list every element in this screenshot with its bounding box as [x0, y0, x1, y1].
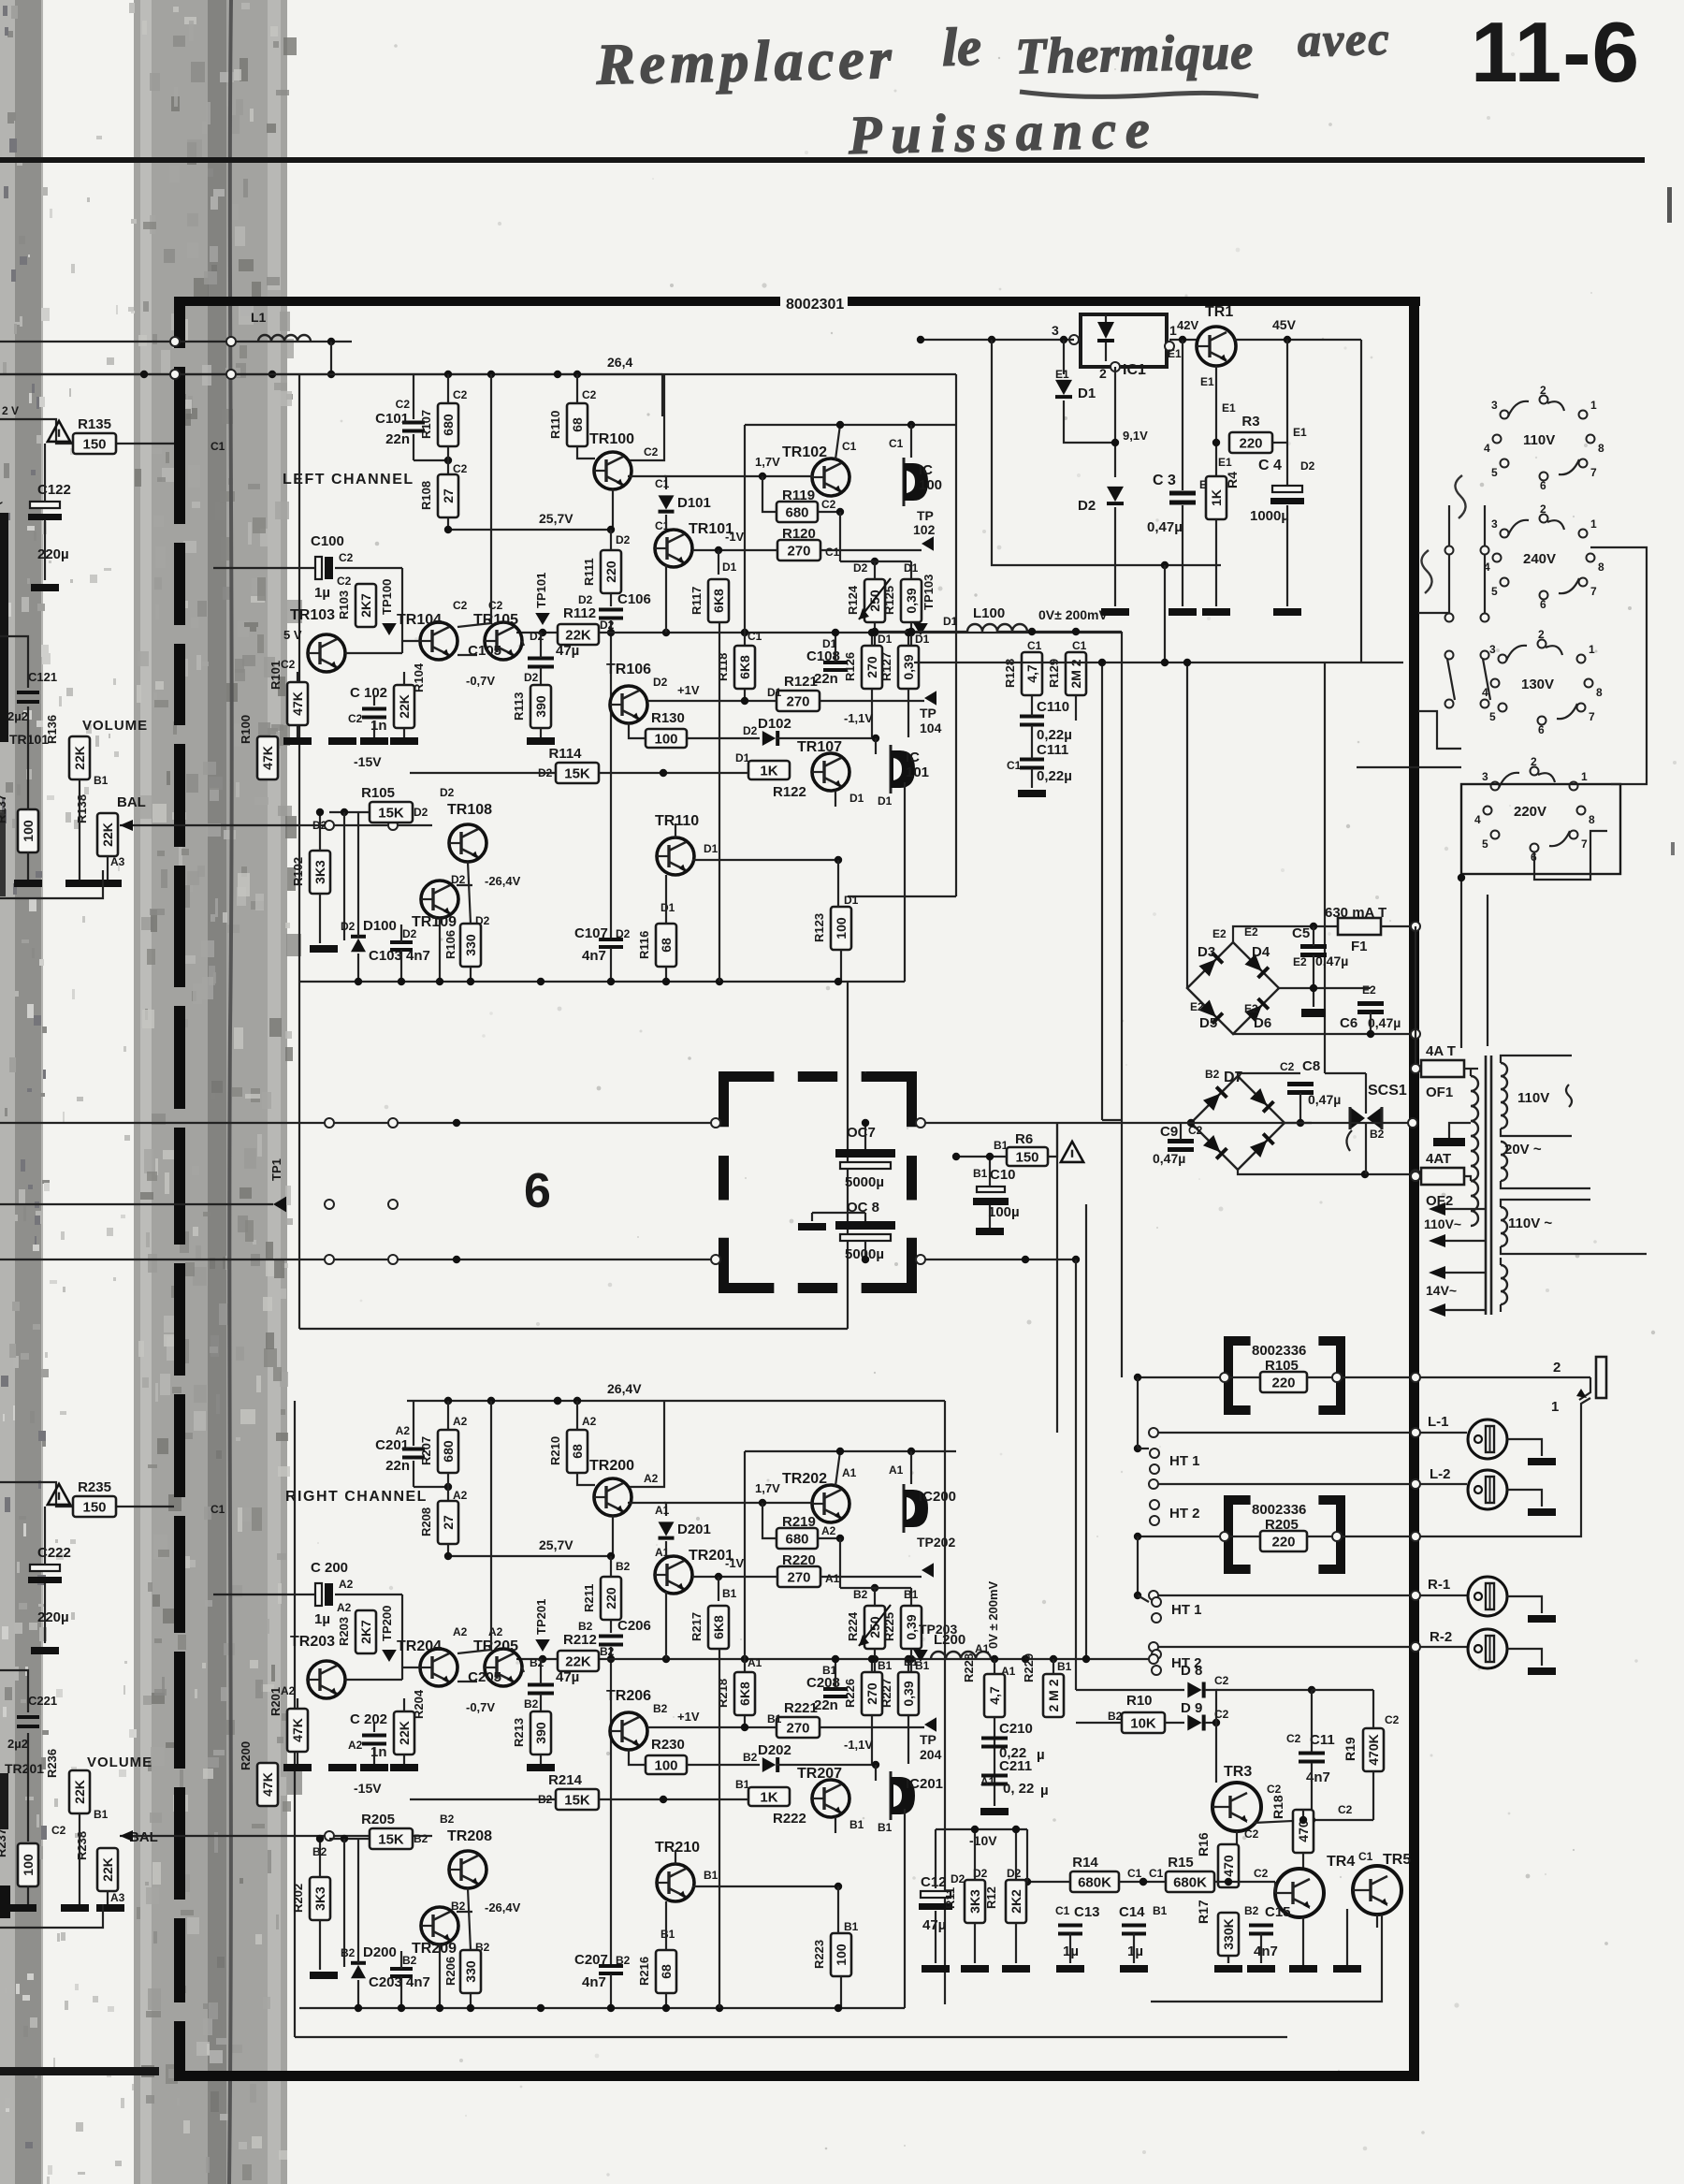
svg-text:4n7: 4n7: [406, 1974, 430, 1990]
svg-text:220: 220: [1271, 1376, 1295, 1391]
svg-text:TR5: TR5: [1383, 1852, 1411, 1868]
svg-text:5: 5: [1482, 837, 1488, 851]
svg-text:B2: B2: [616, 1560, 631, 1573]
svg-text:100: 100: [21, 1854, 36, 1876]
svg-text:C14: C14: [1119, 1904, 1145, 1920]
svg-text:27: 27: [441, 1515, 456, 1530]
svg-text:R205: R205: [361, 1812, 395, 1827]
svg-text:C8: C8: [1302, 1058, 1320, 1074]
svg-text:26,4: 26,4: [607, 355, 632, 370]
svg-text:R127: R127: [879, 652, 893, 681]
svg-text:C1: C1: [748, 630, 762, 643]
svg-text:TR204: TR204: [397, 1638, 442, 1654]
svg-text:D2: D2: [853, 561, 868, 575]
svg-text:C5: C5: [1292, 925, 1310, 941]
svg-text:R3: R3: [1241, 414, 1259, 430]
svg-text:0,39: 0,39: [904, 588, 919, 613]
svg-text:C2: C2: [1286, 1732, 1301, 1745]
svg-text:A1: A1: [889, 1463, 904, 1477]
svg-text:TR110: TR110: [655, 813, 699, 829]
svg-text:C 102: C 102: [350, 685, 387, 701]
svg-text:D1: D1: [878, 633, 893, 646]
svg-text:330: 330: [463, 1960, 478, 1983]
svg-text:TR209: TR209: [412, 1941, 457, 1957]
svg-text:5: 5: [1489, 710, 1496, 723]
svg-text:TR104: TR104: [397, 612, 442, 628]
svg-text:R111: R111: [582, 558, 596, 586]
svg-text:A2: A2: [821, 1524, 836, 1537]
svg-text:101: 101: [906, 764, 929, 780]
svg-text:150: 150: [1015, 1150, 1038, 1166]
svg-text:4n7: 4n7: [1306, 1769, 1330, 1785]
svg-text:C2: C2: [339, 551, 354, 564]
svg-text:2µ2: 2µ2: [7, 1737, 28, 1751]
svg-text:8: 8: [1596, 686, 1603, 699]
svg-text:R16: R16: [1196, 1832, 1211, 1856]
svg-text:R-2: R-2: [1430, 1629, 1452, 1645]
svg-text:C 200: C 200: [311, 1560, 348, 1576]
svg-text:22K: 22K: [565, 1654, 591, 1670]
svg-text:C2: C2: [51, 1824, 66, 1837]
svg-text:7: 7: [1590, 585, 1597, 598]
svg-text:D2: D2: [440, 786, 455, 799]
svg-text:E1: E1: [1218, 456, 1232, 469]
svg-text:B2: B2: [1205, 1068, 1220, 1081]
svg-text:C1: C1: [1149, 1867, 1164, 1880]
svg-text:C2: C2: [1338, 1803, 1353, 1816]
svg-text:C1: C1: [1072, 639, 1087, 652]
svg-text:5000µ: 5000µ: [845, 1174, 884, 1190]
svg-text:L-2: L-2: [1430, 1466, 1451, 1482]
svg-text:0,47µ: 0,47µ: [1315, 954, 1348, 968]
svg-text:15K: 15K: [378, 1832, 404, 1848]
svg-text:C1: C1: [210, 440, 225, 453]
svg-text:3K3: 3K3: [312, 860, 327, 884]
svg-text:0, 22: 0, 22: [1003, 1781, 1034, 1797]
svg-text:204: 204: [920, 1747, 942, 1762]
svg-text:8: 8: [1598, 561, 1604, 574]
svg-text:100: 100: [919, 477, 942, 493]
svg-text:47µ: 47µ: [556, 643, 579, 659]
svg-text:B2: B2: [1244, 1904, 1259, 1917]
svg-text:C 3: C 3: [1153, 473, 1176, 488]
svg-text:R11: R11: [943, 1887, 957, 1909]
svg-text:R100: R100: [239, 715, 253, 744]
svg-text:L-1: L-1: [1428, 1414, 1449, 1430]
svg-text:R237: R237: [0, 1828, 8, 1857]
svg-text:R4: R4: [1225, 472, 1240, 488]
svg-text:IC200: IC200: [919, 1489, 956, 1505]
svg-text:-1,1V: -1,1V: [844, 711, 873, 725]
svg-text:4n7: 4n7: [1254, 1944, 1278, 1959]
svg-text:HT 1: HT 1: [1171, 1602, 1202, 1618]
svg-text:2µ2: 2µ2: [7, 709, 28, 723]
svg-text:TR100: TR100: [589, 431, 634, 447]
svg-text:8002301: 8002301: [786, 297, 844, 313]
svg-text:D1: D1: [844, 894, 859, 907]
svg-text:D2: D2: [616, 533, 631, 546]
svg-text:C106: C106: [617, 591, 651, 607]
svg-text:C2: C2: [1214, 1674, 1229, 1687]
svg-text:D101: D101: [677, 495, 711, 511]
svg-text:A1: A1: [1001, 1665, 1016, 1678]
svg-text:220: 220: [1271, 1535, 1295, 1551]
svg-text:HT 2: HT 2: [1169, 1506, 1200, 1522]
svg-text:R212: R212: [563, 1632, 597, 1648]
svg-text:D1: D1: [878, 794, 893, 808]
svg-text:D3: D3: [1198, 944, 1215, 960]
svg-text:BAL: BAL: [117, 794, 146, 810]
svg-text:8: 8: [1598, 442, 1604, 455]
svg-text:1: 1: [1581, 770, 1588, 783]
svg-text:TR3: TR3: [1224, 1764, 1252, 1780]
svg-text:R102: R102: [291, 857, 305, 886]
svg-text:R236: R236: [45, 1749, 59, 1778]
svg-text:0V± 200mV: 0V± 200mV: [1038, 607, 1109, 622]
svg-text:TP201: TP201: [534, 1599, 548, 1635]
svg-text:5: 5: [1491, 466, 1498, 479]
svg-text:220: 220: [603, 1587, 618, 1609]
svg-text:HT 1: HT 1: [1169, 1453, 1200, 1469]
svg-text:22n: 22n: [814, 1697, 838, 1713]
svg-text:47K: 47K: [290, 1718, 305, 1742]
svg-text:-0,7V: -0,7V: [466, 1700, 495, 1714]
svg-text:680K: 680K: [1078, 1875, 1111, 1891]
svg-text:0V ± 200mV: 0V ± 200mV: [986, 1580, 1000, 1649]
svg-text:R223: R223: [812, 1940, 826, 1969]
svg-text:22n: 22n: [385, 431, 410, 447]
svg-text:B1: B1: [1153, 1904, 1168, 1917]
svg-text:R106: R106: [443, 930, 457, 959]
svg-text:47K: 47K: [260, 1772, 275, 1797]
svg-text:110V ~: 110V ~: [1508, 1216, 1552, 1231]
svg-text:TR4: TR4: [1327, 1854, 1355, 1870]
svg-text:D4: D4: [1252, 944, 1270, 960]
svg-text:B1: B1: [1057, 1660, 1072, 1673]
svg-text:C 202: C 202: [350, 1711, 387, 1727]
svg-text:22n: 22n: [814, 671, 838, 687]
svg-text:Thermique: Thermique: [1015, 23, 1255, 84]
svg-text:D2: D2: [1078, 498, 1096, 514]
svg-text:R17: R17: [1196, 1900, 1211, 1924]
svg-text:68: 68: [659, 1964, 674, 1979]
svg-text:TR109: TR109: [412, 914, 457, 930]
svg-text:IC1: IC1: [1123, 362, 1146, 378]
svg-text:220: 220: [603, 561, 618, 583]
svg-text:D2: D2: [341, 920, 356, 933]
svg-text:A2: A2: [396, 1424, 411, 1437]
svg-text:100: 100: [654, 1758, 677, 1774]
svg-text:A1: A1: [842, 1466, 857, 1479]
svg-text:R217: R217: [690, 1612, 704, 1641]
svg-text:680: 680: [785, 505, 808, 521]
svg-text:1n: 1n: [370, 718, 387, 734]
svg-text:R206: R206: [443, 1957, 457, 1986]
svg-text:TP101: TP101: [534, 573, 548, 608]
svg-text:R130: R130: [651, 710, 685, 726]
svg-text:22K: 22K: [100, 1857, 115, 1882]
svg-text:C111: C111: [1037, 742, 1068, 758]
svg-text:D2: D2: [743, 724, 758, 737]
svg-text:B1: B1: [767, 1712, 782, 1725]
svg-text:4K7: 4K7: [0, 1509, 3, 1530]
svg-text:4,7: 4,7: [987, 1686, 1002, 1705]
svg-text:6: 6: [524, 1164, 551, 1218]
svg-text:C205: C205: [468, 1669, 501, 1685]
svg-text:SCS1: SCS1: [1368, 1083, 1407, 1099]
svg-text:D6: D6: [1254, 1015, 1271, 1031]
svg-text:220V: 220V: [1514, 804, 1546, 820]
svg-text:100: 100: [834, 917, 849, 939]
svg-text:C2: C2: [281, 658, 296, 671]
svg-text:110V~: 110V~: [1424, 1216, 1461, 1231]
svg-text:B1: B1: [94, 774, 109, 787]
svg-text:1µ: 1µ: [314, 1611, 330, 1627]
svg-text:150: 150: [82, 437, 106, 453]
svg-text:R125: R125: [882, 586, 896, 615]
svg-text:D1: D1: [767, 686, 782, 699]
svg-text:D2: D2: [402, 927, 417, 940]
svg-text:C2: C2: [1385, 1713, 1400, 1726]
svg-text:R110: R110: [548, 411, 562, 439]
svg-text:D2: D2: [414, 806, 428, 819]
svg-text:TR206: TR206: [606, 1688, 651, 1704]
svg-text:D200: D200: [363, 1944, 397, 1960]
svg-text:20V ~: 20V ~: [1504, 1142, 1542, 1158]
svg-text:TR107: TR107: [797, 739, 842, 755]
svg-text:TP: TP: [920, 706, 936, 721]
svg-text:R117: R117: [690, 587, 704, 615]
svg-text:22K: 22K: [100, 823, 115, 847]
svg-text:3K3: 3K3: [967, 1889, 982, 1914]
svg-text:D 8: D 8: [1181, 1663, 1202, 1679]
svg-text:68: 68: [570, 417, 585, 432]
svg-text:le: le: [941, 16, 981, 78]
svg-text:3: 3: [1491, 399, 1498, 412]
svg-text:R229: R229: [1022, 1653, 1036, 1682]
svg-text:E1: E1: [1293, 426, 1307, 439]
svg-text:TR208: TR208: [447, 1828, 492, 1844]
svg-text:220µ: 220µ: [37, 1609, 69, 1625]
svg-text:C2: C2: [1280, 1060, 1295, 1073]
svg-text:Remplacer: Remplacer: [595, 27, 897, 97]
svg-text:R19: R19: [1343, 1737, 1357, 1761]
svg-text:E1: E1: [1200, 375, 1214, 388]
svg-text:D2: D2: [653, 676, 668, 689]
svg-text:R6: R6: [1015, 1131, 1033, 1147]
svg-text:14V~: 14V~: [1426, 1283, 1457, 1298]
svg-text:47µ: 47µ: [556, 1669, 579, 1685]
svg-text:B2: B2: [578, 1620, 593, 1633]
svg-text:B1: B1: [849, 1818, 864, 1831]
svg-text:680: 680: [441, 414, 456, 436]
svg-text:E2: E2: [1244, 1002, 1258, 1015]
svg-text:R202: R202: [291, 1884, 305, 1913]
svg-text:102: 102: [913, 522, 936, 537]
svg-text:C1: C1: [1358, 1850, 1373, 1863]
svg-text:2: 2: [1540, 384, 1546, 397]
svg-text:220µ: 220µ: [37, 546, 69, 562]
svg-text:3: 3: [1491, 517, 1498, 531]
svg-text:E1: E1: [1055, 368, 1069, 381]
svg-text:D5: D5: [1199, 1015, 1217, 1031]
svg-text:110V: 110V: [1517, 1090, 1549, 1106]
svg-text:B1: B1: [735, 1778, 750, 1791]
svg-text:1: 1: [1589, 643, 1595, 656]
svg-text:A2: A2: [453, 1625, 468, 1638]
svg-text:R114: R114: [548, 746, 582, 762]
svg-text:R126: R126: [843, 652, 857, 681]
svg-text:C1: C1: [1007, 759, 1022, 772]
svg-text:D1: D1: [915, 633, 930, 646]
svg-text:-15V: -15V: [354, 754, 382, 769]
svg-text:R135: R135: [78, 416, 111, 432]
svg-text:8: 8: [1589, 813, 1595, 826]
svg-text:E2: E2: [1190, 1000, 1204, 1013]
svg-text:R210: R210: [548, 1436, 562, 1465]
svg-text:1K: 1K: [1209, 489, 1224, 506]
svg-text:100: 100: [654, 732, 677, 748]
svg-text:4: 4: [1474, 813, 1481, 826]
svg-text:0,22µ: 0,22µ: [1037, 768, 1072, 784]
svg-text:47K: 47K: [260, 746, 275, 770]
svg-text:BAL: BAL: [129, 1829, 158, 1845]
svg-text:R112: R112: [563, 605, 596, 621]
svg-text:A1: A1: [980, 1775, 995, 1788]
svg-text:R14: R14: [1072, 1855, 1098, 1871]
svg-text:2: 2: [1538, 628, 1545, 641]
svg-text:R116: R116: [637, 931, 651, 959]
svg-text:C2: C2: [1244, 1827, 1259, 1841]
svg-text:R214: R214: [548, 1772, 583, 1788]
svg-text:4n7: 4n7: [582, 948, 606, 964]
svg-text:R228: R228: [962, 1653, 976, 1682]
svg-text:IC: IC: [906, 750, 920, 765]
svg-text:C222: C222: [37, 1545, 71, 1561]
svg-text:L100: L100: [973, 605, 1005, 621]
svg-text:680K: 680K: [1173, 1875, 1207, 1891]
svg-text:2: 2: [1553, 1360, 1561, 1376]
svg-text:R118: R118: [716, 653, 730, 681]
svg-text:B2: B2: [743, 1751, 758, 1764]
svg-text:330: 330: [463, 934, 478, 956]
svg-text:B1: B1: [904, 1655, 919, 1668]
svg-text:B2: B2: [1370, 1128, 1385, 1141]
svg-text:9,1V: 9,1V: [1123, 429, 1148, 443]
svg-text:C11: C11: [1310, 1732, 1335, 1748]
svg-text:D1: D1: [735, 751, 750, 764]
svg-text:B2: B2: [616, 1954, 631, 1967]
svg-text:R221: R221: [784, 1700, 818, 1716]
svg-text:C1: C1: [1127, 1867, 1142, 1880]
svg-text:42V: 42V: [1177, 318, 1198, 332]
svg-text:A2: A2: [644, 1472, 659, 1485]
svg-text:27: 27: [441, 488, 456, 503]
svg-text:R137: R137: [0, 794, 8, 823]
svg-text:TP202: TP202: [917, 1535, 955, 1550]
svg-text:C1: C1: [825, 546, 840, 559]
svg-text:RIGHT CHANNEL: RIGHT CHANNEL: [285, 1489, 428, 1505]
svg-text:R105: R105: [361, 785, 395, 801]
svg-text:2K2: 2K2: [1009, 1889, 1023, 1914]
svg-text:0,47µ: 0,47µ: [1153, 1151, 1185, 1166]
svg-text:22K: 22K: [397, 1721, 412, 1745]
svg-text:R124: R124: [846, 585, 860, 615]
svg-text:22K: 22K: [72, 1780, 87, 1804]
svg-text:C210: C210: [999, 1721, 1033, 1737]
svg-text:TP200: TP200: [380, 1606, 394, 1641]
svg-text:+1V: +1V: [677, 683, 700, 697]
svg-text:TR200: TR200: [589, 1458, 634, 1474]
svg-text:A1: A1: [655, 1504, 670, 1517]
svg-text:2: 2: [1540, 502, 1546, 516]
svg-text:45V: 45V: [1272, 317, 1297, 332]
svg-text:C1: C1: [842, 440, 857, 453]
svg-text:6K8: 6K8: [737, 655, 752, 679]
svg-text:4AT: 4AT: [1426, 1151, 1451, 1167]
svg-text:A1: A1: [748, 1656, 762, 1669]
svg-text:C1: C1: [1027, 639, 1042, 652]
svg-text:68: 68: [659, 938, 674, 953]
svg-text:C2: C2: [582, 388, 597, 401]
svg-text:D2: D2: [616, 927, 631, 940]
svg-text:Puissance: Puissance: [847, 98, 1159, 166]
svg-text:TR1: TR1: [1205, 304, 1233, 320]
svg-text:5: 5: [1491, 585, 1498, 598]
svg-text:-10V: -10V: [969, 1833, 997, 1848]
svg-text:4: 4: [1484, 442, 1490, 455]
svg-text:1: 1: [1169, 323, 1177, 338]
svg-text:240V: 240V: [1523, 551, 1556, 567]
svg-text:C 4: C 4: [1258, 458, 1282, 473]
svg-text:390: 390: [533, 1722, 548, 1744]
svg-text:avec: avec: [1297, 12, 1391, 66]
svg-text:A3: A3: [110, 1891, 125, 1904]
svg-text:25,7V: 25,7V: [539, 511, 573, 526]
svg-text:TR201: TR201: [5, 1761, 44, 1776]
svg-text:2: 2: [1099, 366, 1107, 381]
svg-text:A1: A1: [825, 1572, 840, 1585]
svg-text:R18: R18: [1270, 1795, 1285, 1819]
svg-text:OC7: OC7: [847, 1125, 876, 1141]
svg-text:D2: D2: [1300, 459, 1315, 473]
svg-text:R208: R208: [419, 1507, 433, 1536]
svg-text:B1: B1: [844, 1920, 859, 1933]
svg-text:1µ: 1µ: [1127, 1944, 1143, 1959]
svg-text:B2: B2: [402, 1954, 417, 1967]
svg-text:4A T: 4A T: [1426, 1043, 1456, 1059]
svg-text:100: 100: [21, 820, 36, 842]
svg-text:B2: B2: [653, 1702, 668, 1715]
svg-text:D202: D202: [758, 1742, 791, 1758]
svg-text:D 9: D 9: [1181, 1700, 1202, 1716]
svg-text:TR210: TR210: [655, 1840, 700, 1856]
svg-text:-1V: -1V: [725, 1556, 745, 1570]
svg-text:2 V: 2 V: [2, 404, 19, 417]
svg-text:D1: D1: [704, 842, 719, 855]
svg-text:TR102: TR102: [782, 444, 827, 460]
svg-text:22K: 22K: [565, 628, 591, 644]
svg-text:TR207: TR207: [797, 1766, 842, 1782]
svg-text:B1: B1: [661, 1928, 675, 1941]
svg-text:OF1: OF1: [1426, 1085, 1453, 1100]
svg-text:15K: 15K: [564, 1793, 590, 1809]
svg-text:-15V: -15V: [354, 1781, 382, 1796]
svg-text:B1: B1: [878, 1659, 893, 1672]
svg-text:C201: C201: [375, 1437, 409, 1453]
svg-text:C206: C206: [617, 1618, 651, 1634]
svg-text:R213: R213: [512, 1718, 526, 1747]
